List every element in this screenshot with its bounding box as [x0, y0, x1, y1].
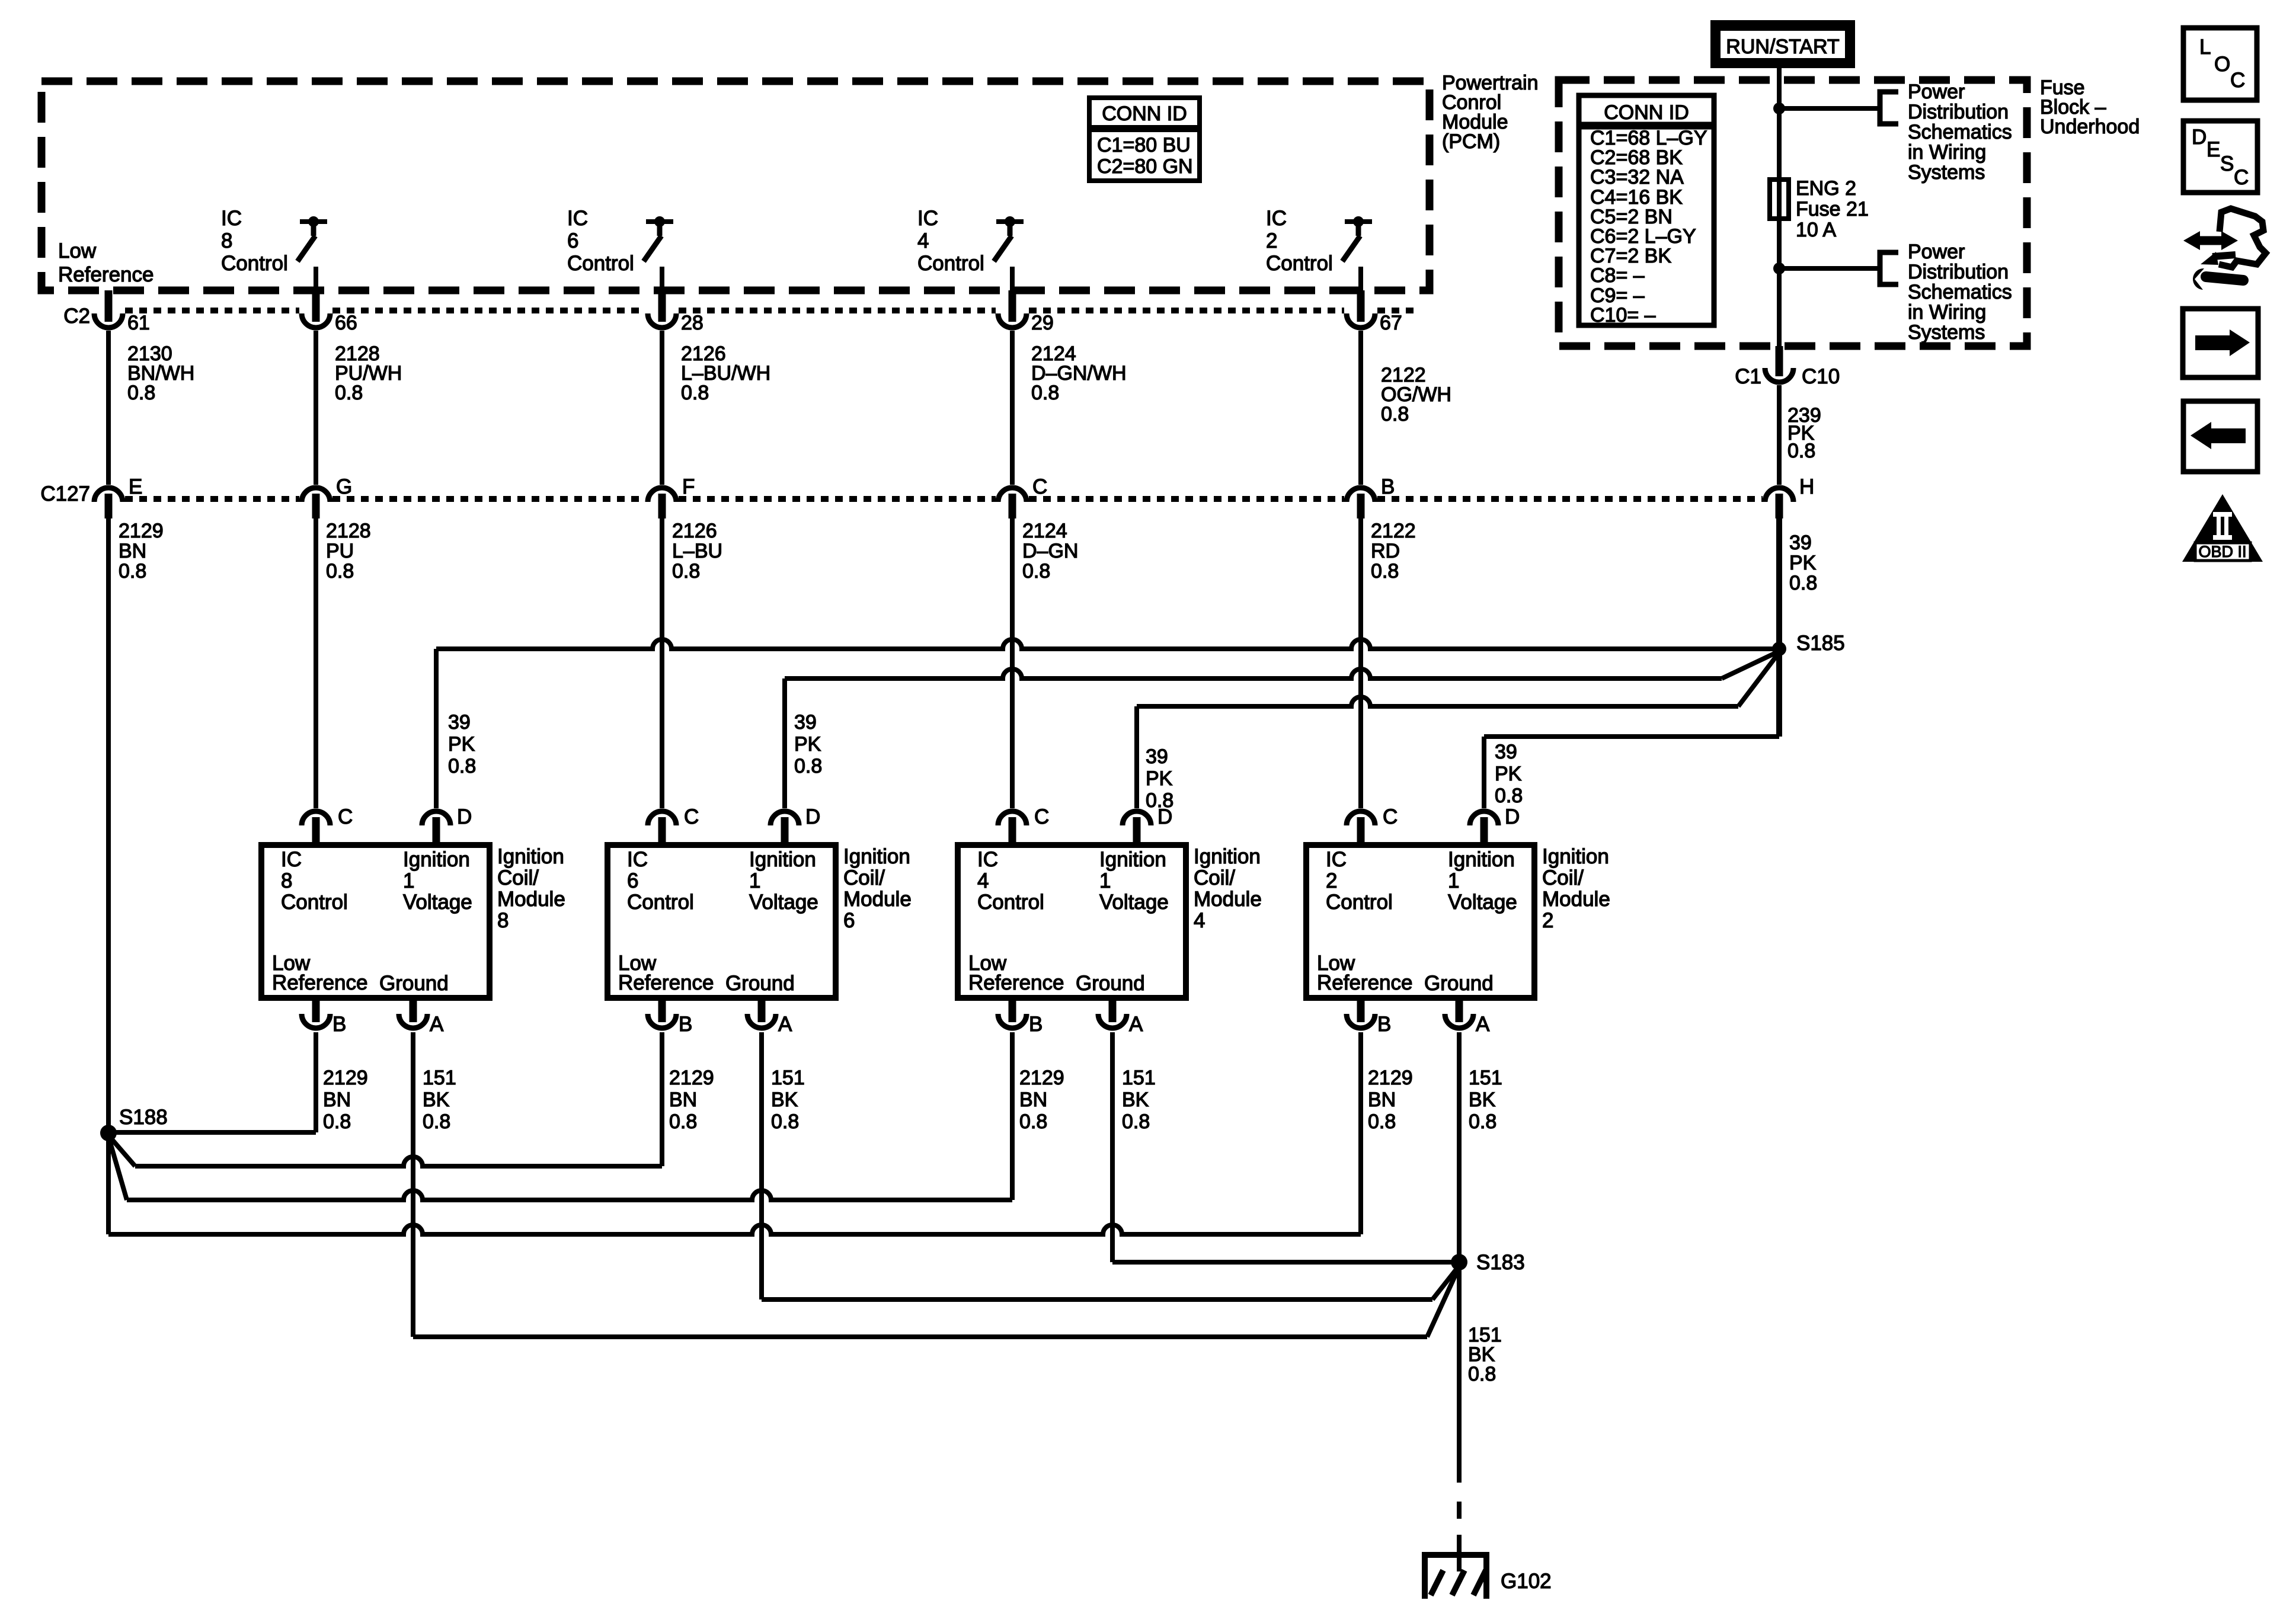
svg-text:0.8: 0.8	[1371, 560, 1399, 582]
bus wire 39PK to coil 6 D	[785, 669, 1722, 678]
svg-text:Coil/: Coil/	[1542, 866, 1584, 889]
svg-text:Control: Control	[977, 891, 1044, 914]
svg-text:L–BU: L–BU	[672, 540, 722, 562]
svg-text:G: G	[336, 475, 352, 498]
svg-text:CONN ID: CONN ID	[1102, 103, 1187, 125]
svg-text:Fuse 21: Fuse 21	[1796, 198, 1869, 220]
wire branch to Power Distribution 2	[1779, 266, 1879, 271]
svg-text:Ground: Ground	[1076, 972, 1145, 995]
wire coil4 B bus	[1010, 1032, 1015, 1200]
svg-text:D: D	[1157, 805, 1172, 828]
C127 pin B	[1347, 488, 1375, 502]
svg-text:151: 151	[771, 1067, 805, 1089]
wire	[106, 331, 111, 485]
coil pin A	[1456, 998, 1463, 1022]
svg-text:C2=80 GN: C2=80 GN	[1097, 155, 1193, 178]
left arrow icon box	[2183, 401, 2257, 472]
wire coil4 A bus	[1110, 1032, 1115, 1262]
svg-text:S: S	[2220, 152, 2234, 175]
svg-text:0.8: 0.8	[672, 560, 700, 582]
PCM CONN ID table	[1089, 98, 1200, 127]
svg-text:Ignition: Ignition	[497, 845, 564, 868]
coil pin B	[1009, 998, 1016, 1022]
wire to coil D pin	[782, 678, 787, 808]
coil pin D	[1123, 811, 1151, 825]
wire	[1358, 331, 1363, 485]
svg-text:1: 1	[1448, 869, 1459, 892]
svg-text:D: D	[805, 805, 820, 828]
svg-text:2: 2	[1326, 869, 1337, 892]
svg-text:OBD II: OBD II	[2198, 543, 2246, 561]
svg-text:PK: PK	[1495, 763, 1522, 785]
svg-text:0.8: 0.8	[323, 1110, 351, 1133]
coil pin C	[302, 811, 330, 825]
svg-text:0.8: 0.8	[1469, 1110, 1496, 1133]
dashed break	[1457, 1502, 1462, 1519]
connector row C127 (dotted)	[125, 496, 299, 502]
svg-text:2: 2	[1542, 909, 1553, 932]
svg-text:PK: PK	[1146, 767, 1173, 790]
svg-text:Reference: Reference	[272, 971, 367, 994]
svg-text:C: C	[1032, 475, 1047, 498]
ignition coil/module 2 box	[1306, 845, 1534, 998]
wire Low Reference down to S188	[106, 518, 111, 1133]
svg-text:Voltage: Voltage	[403, 891, 472, 914]
svg-text:0.8: 0.8	[1468, 1363, 1496, 1385]
svg-text:Ignition: Ignition	[1542, 845, 1609, 868]
svg-text:Distribution: Distribution	[1908, 101, 2009, 123]
svg-text:D: D	[1505, 805, 1520, 828]
svg-text:C127: C127	[40, 482, 90, 505]
svg-text:0.8: 0.8	[1787, 440, 1815, 462]
svg-text:0.8: 0.8	[1495, 785, 1523, 807]
svg-text:Control: Control	[1326, 891, 1393, 914]
svg-text:RUN/START: RUN/START	[1726, 36, 1839, 58]
svg-text:29: 29	[1031, 312, 1054, 334]
svg-text:Ignition: Ignition	[843, 845, 910, 868]
svg-text:Underhood: Underhood	[2040, 116, 2140, 138]
svg-text:in Wiring: in Wiring	[1908, 301, 1986, 324]
wire	[660, 331, 664, 485]
svg-text:S183: S183	[1476, 1251, 1525, 1274]
svg-text:C10: C10	[1802, 365, 1840, 388]
svg-text:2126: 2126	[672, 520, 717, 542]
svg-text:6: 6	[567, 229, 578, 252]
svg-text:Coil/: Coil/	[843, 866, 885, 889]
wire coil8 A bus	[411, 1032, 415, 1337]
coil pin D	[422, 811, 450, 825]
coil pin B	[312, 998, 320, 1022]
svg-text:Voltage: Voltage	[1448, 891, 1517, 914]
svg-text:0.8: 0.8	[681, 382, 709, 404]
coil pin B	[658, 998, 666, 1022]
svg-text:IC: IC	[917, 207, 938, 230]
svg-text:E: E	[2207, 138, 2220, 161]
wire to coil C pin	[314, 518, 318, 808]
svg-text:C: C	[1034, 805, 1049, 828]
svg-text:2129: 2129	[119, 520, 164, 542]
C2 pin 61	[105, 290, 113, 322]
svg-text:Schematics: Schematics	[1908, 121, 2012, 143]
svg-text:BK: BK	[1469, 1089, 1496, 1111]
svg-text:Module: Module	[497, 888, 565, 911]
svg-text:BK: BK	[1122, 1089, 1149, 1111]
svg-text:D–GN: D–GN	[1022, 540, 1078, 562]
svg-text:CONN ID: CONN ID	[1604, 101, 1689, 124]
svg-text:0.8: 0.8	[335, 382, 363, 404]
svg-text:B: B	[1029, 1013, 1043, 1036]
wire 239 PK	[1777, 385, 1782, 485]
bus wire 39PK to coil 2 D	[1776, 649, 1782, 737]
svg-text:ENG 2: ENG 2	[1796, 177, 1856, 200]
svg-text:2129: 2129	[1019, 1067, 1064, 1089]
Fuse block CONN ID table	[1579, 95, 1714, 124]
wire to coil C pin	[1010, 518, 1015, 808]
svg-text:8: 8	[221, 229, 232, 252]
svg-text:39: 39	[1495, 741, 1517, 763]
svg-text:Reference: Reference	[58, 263, 154, 286]
svg-text:2129: 2129	[1368, 1067, 1413, 1089]
svg-text:C10= –: C10= –	[1590, 304, 1656, 327]
coil pin C	[648, 811, 676, 825]
svg-text:C: C	[684, 805, 699, 828]
svg-text:G102: G102	[1501, 1570, 1552, 1593]
svg-text:6: 6	[627, 869, 638, 892]
C2 pin 29	[1009, 290, 1016, 322]
svg-text:Power: Power	[1908, 81, 1965, 103]
connector C1/C10	[1776, 346, 1783, 376]
svg-text:Control: Control	[567, 252, 634, 275]
svg-text:PK: PK	[794, 733, 821, 756]
svg-text:Module: Module	[1194, 888, 1262, 911]
svg-text:Ignition: Ignition	[1448, 848, 1515, 871]
svg-text:67: 67	[1380, 312, 1402, 334]
svg-text:Systems: Systems	[1908, 161, 1985, 184]
svg-text:Module: Module	[843, 888, 912, 911]
svg-text:(PCM): (PCM)	[1442, 130, 1500, 153]
LOC icon box	[2183, 28, 2257, 100]
svg-text:Control: Control	[221, 252, 288, 275]
svg-text:8: 8	[281, 869, 292, 892]
svg-text:0.8: 0.8	[423, 1110, 450, 1133]
svg-text:IC: IC	[281, 848, 302, 871]
svg-text:L: L	[2199, 36, 2211, 59]
svg-text:IC: IC	[221, 207, 242, 230]
svg-text:Coil/: Coil/	[497, 866, 539, 889]
svg-text:0.8: 0.8	[1031, 382, 1059, 404]
svg-text:PK: PK	[1789, 552, 1817, 574]
junction node bottom	[1773, 263, 1785, 274]
svg-text:1: 1	[403, 869, 414, 892]
wire to coil C pin	[1358, 518, 1363, 808]
svg-text:0.8: 0.8	[448, 755, 476, 777]
svg-text:0.8: 0.8	[119, 560, 146, 582]
svg-text:0.8: 0.8	[1368, 1110, 1396, 1133]
fuse ENG 2	[1770, 180, 1789, 219]
ignition coil/module 8 box	[261, 845, 490, 998]
wire coil8 B to S188	[314, 1032, 318, 1132]
svg-text:A: A	[1476, 1013, 1490, 1036]
svg-text:Voltage: Voltage	[1099, 891, 1169, 914]
bus wire 39PK to coil 4 D	[1137, 697, 1738, 706]
svg-text:61: 61	[127, 312, 150, 334]
svg-text:0.8: 0.8	[1789, 572, 1817, 594]
svg-text:Ignition: Ignition	[1194, 845, 1261, 868]
svg-text:Distribution: Distribution	[1908, 261, 2009, 283]
svg-text:C3=32 NA: C3=32 NA	[1590, 166, 1684, 188]
svg-text:B: B	[332, 1013, 346, 1036]
svg-text:0.8: 0.8	[127, 382, 155, 404]
C2 pin 67	[1357, 290, 1365, 322]
svg-text:Voltage: Voltage	[749, 891, 818, 914]
svg-text:4: 4	[977, 869, 989, 892]
svg-text:C2: C2	[63, 305, 90, 328]
svg-text:C: C	[2234, 166, 2249, 189]
junction node top	[1773, 103, 1785, 114]
OBD II triangle	[2182, 494, 2263, 562]
coil pin C	[998, 811, 1027, 825]
svg-text:F: F	[682, 475, 695, 498]
svg-text:C1: C1	[1735, 365, 1761, 388]
coil pin D	[770, 811, 799, 825]
wire fuse to bottom of fuse block	[1777, 219, 1782, 346]
C127 pin H	[1765, 488, 1793, 502]
C2 pin 66	[312, 290, 320, 322]
svg-text:28: 28	[681, 312, 703, 334]
wire coil6 B bus	[660, 1032, 664, 1166]
RUN/START box	[1710, 20, 1855, 68]
svg-text:B: B	[1381, 475, 1395, 498]
service icon: double arrow, outline, wrench	[2195, 236, 2226, 245]
svg-text:Reference: Reference	[1317, 971, 1412, 994]
wire	[314, 331, 318, 485]
wire to coil D pin	[434, 649, 439, 808]
off-page bracket 1	[1880, 92, 1898, 124]
ground G102	[1422, 1552, 1489, 1558]
svg-text:B: B	[679, 1013, 692, 1036]
coil pin A	[1109, 998, 1117, 1022]
svg-text:O: O	[2214, 53, 2230, 76]
wire to coil D pin	[1482, 737, 1486, 808]
svg-text:2128: 2128	[326, 520, 371, 542]
svg-text:39: 39	[1146, 745, 1168, 768]
svg-text:IC: IC	[977, 848, 998, 871]
Fuse Block - Underhood dashed box	[1559, 80, 2027, 346]
svg-text:Control: Control	[281, 891, 348, 914]
wire branch to Power Distribution 1	[1779, 106, 1879, 111]
svg-text:1: 1	[1099, 869, 1111, 892]
svg-text:Ground: Ground	[725, 972, 795, 995]
svg-text:2124: 2124	[1022, 520, 1067, 542]
svg-text:39: 39	[1789, 532, 1812, 554]
svg-text:E: E	[129, 475, 142, 498]
svg-text:Control: Control	[917, 252, 984, 275]
svg-text:Coil/: Coil/	[1194, 866, 1235, 889]
splice S183	[1451, 1254, 1467, 1270]
svg-text:0.8: 0.8	[771, 1110, 799, 1133]
coil pin D	[1470, 811, 1498, 825]
splice S188	[100, 1125, 117, 1141]
svg-text:IC: IC	[1266, 207, 1287, 230]
svg-text:Low: Low	[58, 239, 97, 263]
coil pin A	[758, 998, 766, 1022]
svg-text:Schematics: Schematics	[1908, 281, 2012, 303]
coil pin B	[1357, 998, 1365, 1022]
ignition coil/module 6 box	[607, 845, 836, 998]
svg-text:0.8: 0.8	[669, 1110, 697, 1133]
svg-text:IC: IC	[1326, 848, 1347, 871]
svg-text:S185: S185	[1796, 632, 1845, 655]
wire coil2 B bus	[1358, 1032, 1363, 1234]
right arrow icon box	[2183, 309, 2258, 377]
svg-text:39: 39	[448, 711, 471, 734]
DESC icon box	[2183, 121, 2257, 193]
Powertrain Control Module (PCM) dashed box	[41, 81, 1430, 290]
svg-text:A: A	[430, 1013, 444, 1036]
off-page bracket 2	[1880, 252, 1898, 284]
svg-text:PU: PU	[326, 540, 354, 562]
svg-text:0.8: 0.8	[1022, 560, 1050, 582]
svg-text:BN: BN	[323, 1089, 351, 1111]
svg-text:8: 8	[497, 909, 509, 932]
svg-text:BK: BK	[771, 1089, 798, 1111]
svg-text:BN: BN	[669, 1089, 697, 1111]
svg-text:Ignition: Ignition	[749, 848, 816, 871]
svg-text:A: A	[1129, 1013, 1143, 1036]
svg-text:0.8: 0.8	[1122, 1110, 1150, 1133]
svg-text:66: 66	[335, 312, 357, 334]
svg-text:Ground: Ground	[1424, 972, 1494, 995]
svg-text:2129: 2129	[669, 1067, 714, 1089]
svg-text:0.8: 0.8	[326, 560, 354, 582]
svg-text:RD: RD	[1371, 540, 1400, 562]
svg-text:Ignition: Ignition	[1099, 848, 1166, 871]
svg-text:2: 2	[1266, 229, 1277, 252]
svg-text:C: C	[338, 805, 353, 828]
coil pin A	[410, 998, 417, 1022]
svg-text:C: C	[2230, 69, 2245, 92]
svg-text:Systems: Systems	[1908, 321, 1985, 344]
svg-text:151: 151	[423, 1067, 456, 1089]
wire to coil C pin	[660, 518, 664, 808]
svg-text:PK: PK	[448, 733, 475, 756]
bus wire 39PK to coil 8 D	[436, 639, 1779, 649]
ignition coil/module 4 box	[958, 845, 1186, 998]
svg-text:6: 6	[843, 909, 855, 932]
wire	[1010, 331, 1015, 485]
svg-text:151: 151	[1122, 1067, 1156, 1089]
connector row C2 (dotted)	[125, 308, 299, 313]
svg-text:0.8: 0.8	[1019, 1110, 1047, 1133]
svg-text:Ignition: Ignition	[403, 848, 470, 871]
C127 pin E	[94, 488, 123, 502]
svg-text:D: D	[2192, 126, 2207, 149]
svg-text:BN: BN	[1019, 1089, 1047, 1111]
svg-text:H: H	[1799, 475, 1814, 498]
svg-text:Ground: Ground	[379, 972, 449, 995]
svg-text:BN: BN	[1368, 1089, 1396, 1111]
wire coil6 A bus	[759, 1032, 764, 1299]
svg-text:S188: S188	[119, 1106, 168, 1129]
wire 151 BK to ground	[1457, 1262, 1462, 1483]
svg-text:Module: Module	[1542, 888, 1610, 911]
svg-text:0.8: 0.8	[794, 755, 822, 777]
svg-text:BK: BK	[423, 1089, 450, 1111]
svg-text:39: 39	[794, 711, 817, 734]
svg-text:Power: Power	[1908, 241, 1965, 263]
svg-text:IC: IC	[627, 848, 648, 871]
C127 pin F	[648, 488, 676, 502]
svg-text:4: 4	[917, 229, 929, 252]
C2 pin 28	[658, 290, 666, 322]
svg-text:151: 151	[1469, 1067, 1502, 1089]
svg-text:Control: Control	[627, 891, 694, 914]
svg-text:2122: 2122	[1371, 520, 1416, 542]
svg-text:IC: IC	[567, 207, 588, 230]
C127 pin G	[302, 488, 330, 502]
svg-text:A: A	[778, 1013, 792, 1036]
svg-text:4: 4	[1194, 909, 1205, 932]
svg-text:B: B	[1377, 1013, 1391, 1036]
svg-text:in Wiring: in Wiring	[1908, 141, 1986, 164]
svg-text:D: D	[457, 805, 472, 828]
svg-text:0.8: 0.8	[1381, 403, 1409, 425]
coil pin C	[1347, 811, 1375, 825]
svg-text:C1=80 BU: C1=80 BU	[1097, 134, 1191, 156]
wire coil2 A to S183	[1457, 1032, 1462, 1262]
svg-text:C: C	[1383, 805, 1398, 828]
svg-text:Reference: Reference	[968, 971, 1064, 994]
svg-text:Control: Control	[1266, 252, 1333, 275]
wire RUN/START to fuse	[1777, 68, 1782, 182]
svg-text:Reference: Reference	[618, 971, 714, 994]
wire 39 PK H to S185	[1776, 518, 1782, 649]
svg-text:BN: BN	[119, 540, 146, 562]
svg-text:10 A: 10 A	[1796, 219, 1836, 241]
svg-text:1: 1	[749, 869, 760, 892]
C127 pin C	[998, 488, 1027, 502]
splice S185	[1772, 642, 1786, 656]
svg-text:C8= –: C8= –	[1590, 264, 1645, 287]
svg-text:2129: 2129	[323, 1067, 368, 1089]
wire to coil D pin	[1134, 706, 1139, 808]
